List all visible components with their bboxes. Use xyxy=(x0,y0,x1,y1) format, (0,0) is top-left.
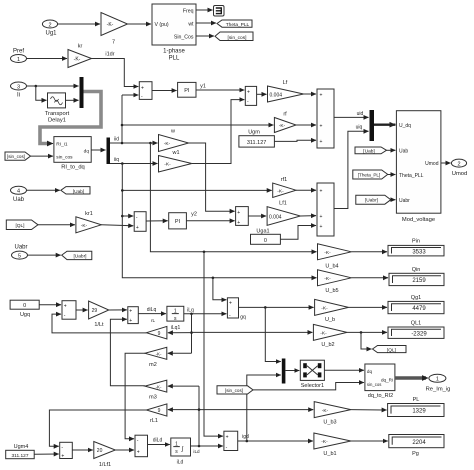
gain U_b2 xyxy=(313,324,347,347)
wire iiq long line to rf1 xyxy=(122,189,271,191)
gain Lf 0.004 xyxy=(268,80,304,102)
gain kr xyxy=(68,44,92,68)
svg-text:-K-: -K- xyxy=(321,439,328,445)
svg-text:-K-: -K- xyxy=(81,223,88,229)
svg-text:Umod: Umod xyxy=(425,161,439,167)
goto tag QL left xyxy=(373,346,407,354)
svg-text:311.127: 311.127 xyxy=(12,453,29,459)
display Pin xyxy=(388,239,444,256)
goto tag Theta_PLL xyxy=(217,20,252,28)
svg-text:dq: dq xyxy=(367,369,373,374)
svg-text:Pref: Pref xyxy=(13,49,24,55)
block Mod_voltage xyxy=(396,111,441,223)
svg-text:1-phase: 1-phase xyxy=(163,49,185,55)
svg-text:[Uab]: [Uab] xyxy=(363,149,374,155)
junction lineA down xyxy=(203,251,206,254)
svg-text:2: 2 xyxy=(48,22,51,28)
svg-text:9: 9 xyxy=(158,408,161,414)
gain U_b1 xyxy=(314,433,351,457)
wire rLq1 feedback to S6 xyxy=(52,314,146,333)
wire dq to demux1 xyxy=(91,149,105,151)
svg-text:sin_cos: sin_cos xyxy=(56,155,73,161)
mux1 xyxy=(80,77,84,108)
svg-text:+: + xyxy=(247,89,250,95)
wire U_b2 to QL1 display xyxy=(347,331,387,333)
svg-text:+: + xyxy=(61,453,64,459)
svg-text:-K-: -K- xyxy=(164,141,171,147)
svg-text:U_b: U_b xyxy=(325,317,335,323)
wire igd S9 to U_b1 xyxy=(238,434,313,442)
gain U_b4 xyxy=(318,244,352,269)
wire iLq vertical down xyxy=(191,314,193,354)
svg-text:0.004: 0.004 xyxy=(270,93,283,99)
svg-text:[QL]: [QL] xyxy=(15,223,24,229)
gain m3 left xyxy=(145,380,167,401)
wire rL1 feedback to S10 xyxy=(49,410,146,446)
svg-text:Sin_Cos: Sin_Cos xyxy=(174,34,194,40)
goto tag Uab left xyxy=(61,187,90,195)
wire Ugm to Stop xyxy=(274,140,316,141)
svg-text:iLq1: iLq1 xyxy=(171,325,181,331)
svg-text:-K-: -K- xyxy=(156,352,162,357)
wire iLq to gain m2 xyxy=(168,352,192,354)
wire kr1 to S5 xyxy=(101,225,133,226)
wire gq down to mux3 xyxy=(265,307,281,361)
display QL1 xyxy=(388,320,444,338)
svg-text:-K-: -K- xyxy=(277,188,284,194)
svg-text:Pg: Pg xyxy=(412,451,419,457)
display PL xyxy=(388,397,444,417)
svg-text:+: + xyxy=(137,449,140,455)
wire Lf to Stop xyxy=(304,93,317,95)
svg-text:[Uabr]: [Uabr] xyxy=(73,254,86,260)
svg-text:+: + xyxy=(237,210,240,216)
wire Ugq to S6 xyxy=(39,304,61,306)
wire y1 PI to sum S2 xyxy=(196,84,244,91)
wire iLd to rL1 xyxy=(168,409,199,411)
wire Uab to goto xyxy=(27,189,60,191)
svg-text:+: + xyxy=(129,309,132,315)
gain rf xyxy=(274,112,296,133)
block 1-phase PLL xyxy=(152,4,196,62)
mux2 xyxy=(370,110,375,141)
gain w1 xyxy=(159,150,192,172)
wire igd up to mux3 xyxy=(247,375,281,441)
svg-text:kr1: kr1 xyxy=(85,211,93,217)
wire lineA down to S9 xyxy=(204,252,223,436)
svg-text:sin_cos: sin_cos xyxy=(367,382,382,387)
integrator 1/s iLq1 xyxy=(167,306,184,331)
svg-text:3533: 3533 xyxy=(412,249,426,255)
svg-text:rf1: rf1 xyxy=(281,177,287,183)
svg-text:9: 9 xyxy=(158,331,161,337)
demux1 xyxy=(107,138,111,165)
wire rf to Stop xyxy=(296,124,316,126)
block dq_to_RI2 xyxy=(365,364,395,399)
wire iid demux to gain w xyxy=(110,137,158,145)
svg-text:[Uab]: [Uab] xyxy=(73,189,84,195)
svg-text:[Theta_PL]: [Theta_PL] xyxy=(358,172,380,177)
svg-text:[QL]: [QL] xyxy=(387,347,396,353)
wire Uga1 to S4 xyxy=(280,226,316,240)
gain w xyxy=(159,129,189,152)
wire to gain rLq1 xyxy=(168,332,192,334)
gain rL1 9 left xyxy=(146,404,167,424)
svg-text:Ugm4: Ugm4 xyxy=(14,444,29,450)
wire Ug1 to gain7 xyxy=(58,23,100,25)
svg-text:Theta_PLL: Theta_PLL xyxy=(399,173,424,179)
junction Ii branch xyxy=(35,85,38,88)
wire Ii to mux1 xyxy=(27,85,79,87)
wire m2 down to S11 xyxy=(125,353,145,439)
gain rLq1 9 left xyxy=(146,326,167,339)
wire U_b4 to Pin display xyxy=(351,251,387,253)
svg-text:y1: y1 xyxy=(200,84,206,90)
wire Freq to display icon xyxy=(196,9,213,11)
wire S6 to gain 29 xyxy=(76,309,88,311)
constant Ugm 311.127 xyxy=(239,130,275,147)
outport 1 Re_Im_ig xyxy=(426,374,451,392)
svg-text:-K-: -K- xyxy=(324,276,331,282)
svg-text:-K-: -K- xyxy=(321,306,328,312)
from tag Uab right xyxy=(355,147,395,155)
svg-text:+: + xyxy=(136,225,139,231)
display Pg xyxy=(389,435,444,457)
svg-text:Ugm: Ugm xyxy=(248,130,260,136)
block RI_to_dq xyxy=(54,137,91,171)
display Qin xyxy=(389,267,444,286)
svg-text:Lf: Lf xyxy=(283,80,288,86)
sum S6 xyxy=(62,301,76,320)
small display block (Freq) xyxy=(214,6,225,17)
svg-text:U_b4: U_b4 xyxy=(325,263,338,269)
wire U_b1 to Pg display xyxy=(351,440,388,442)
wire lineB down to S8 xyxy=(213,278,227,300)
svg-text:[sin_cos]: [sin_cos] xyxy=(7,154,25,159)
svg-text:Uabr: Uabr xyxy=(14,245,27,251)
wire iLd to S9 xyxy=(191,445,223,454)
wire iLq to S8 xyxy=(184,307,227,315)
wire S2 to Lf xyxy=(257,93,267,95)
svg-text:+: + xyxy=(226,435,229,441)
inport 5 Uabr xyxy=(12,245,28,260)
wire mux2 to Mod_voltage U_dq thick xyxy=(374,123,395,125)
sum S3 xyxy=(236,207,249,226)
svg-text:RI_to_dq: RI_to_dq xyxy=(61,164,85,170)
wire diLd S11 to integrator2 xyxy=(148,438,170,445)
wire Uabr to goto xyxy=(28,254,61,256)
svg-text:0: 0 xyxy=(264,238,267,244)
svg-text:Ii: Ii xyxy=(17,93,20,99)
from tag QL left xyxy=(6,220,75,230)
svg-text:dq: dq xyxy=(84,149,90,155)
svg-text:iLd: iLd xyxy=(177,460,184,466)
svg-text:Qg1: Qg1 xyxy=(411,295,421,301)
svg-text:+: + xyxy=(64,303,67,309)
svg-text:∫: ∫ xyxy=(181,445,184,452)
junction lineB down xyxy=(212,277,215,280)
svg-text:PI: PI xyxy=(175,219,181,225)
svg-text:-2329: -2329 xyxy=(411,331,427,337)
svg-text:i1dr: i1dr xyxy=(105,52,114,58)
wire rf1 to S4 xyxy=(296,189,316,191)
wire ukq S4 up to mux2 xyxy=(334,124,369,208)
from tag Theta_PLL right xyxy=(353,170,396,179)
svg-text:uid: uid xyxy=(357,111,364,117)
gain U_b3 xyxy=(314,402,351,426)
svg-text:m2: m2 xyxy=(149,362,157,368)
from tag sin_cos bottom xyxy=(217,383,364,395)
wire U_b2 branch to goto QL xyxy=(361,332,372,349)
gain rf1 xyxy=(273,177,296,198)
sum S8 gq xyxy=(227,298,246,321)
svg-text:4479: 4479 xyxy=(412,306,426,312)
svg-text:Qin: Qin xyxy=(412,267,421,273)
svg-text:5: 5 xyxy=(18,253,21,259)
svg-text:Freq: Freq xyxy=(183,8,194,14)
svg-text:Lf1: Lf1 xyxy=(279,201,287,207)
inport 3 Ii xyxy=(11,82,27,99)
gain m2 left xyxy=(145,347,167,368)
wire w gain down to sum S3 xyxy=(189,143,235,211)
svg-text:gq: gq xyxy=(240,314,246,320)
svg-text:uiq: uiq xyxy=(356,124,363,130)
svg-text:[sin_cos]: [sin_cos] xyxy=(228,35,247,41)
sum S1 xyxy=(139,82,152,100)
svg-text:Selector1: Selector1 xyxy=(301,383,324,389)
svg-text:Ugq: Ugq xyxy=(20,312,30,318)
gain 29 1/Lt xyxy=(89,301,109,328)
sum Stop ukd xyxy=(317,89,334,148)
constant Uga1 xyxy=(251,228,281,244)
svg-text:iid: iid xyxy=(114,137,119,143)
wire S5 to PI2 xyxy=(146,220,168,222)
from tag Uabr right xyxy=(356,195,396,204)
wire Pref to kr xyxy=(27,58,68,60)
svg-text:+: + xyxy=(320,214,323,220)
svg-text:dq_Ri: dq_Ri xyxy=(381,377,393,382)
svg-text:QL1: QL1 xyxy=(411,320,421,326)
svg-text:Pin: Pin xyxy=(412,239,420,245)
svg-text:-K-: -K- xyxy=(279,123,286,129)
wire Ii down to Transport Delay xyxy=(36,86,47,100)
svg-text:2159: 2159 xyxy=(412,278,426,284)
sum S9 igd xyxy=(224,431,238,450)
svg-text:Uab: Uab xyxy=(399,149,408,155)
svg-text:2: 2 xyxy=(457,161,460,167)
wire Sin_Cos to goto sin_cos xyxy=(196,35,214,37)
svg-text:-K-: -K- xyxy=(322,408,329,414)
block Transport Delay1 xyxy=(45,93,70,123)
svg-text:U_b5: U_b5 xyxy=(325,288,338,294)
svg-text:diLd: diLd xyxy=(153,438,163,444)
svg-text:iLq: iLq xyxy=(187,307,194,313)
wire iiq vertical down to line B xyxy=(122,164,316,278)
svg-text:311.127: 311.127 xyxy=(247,140,266,146)
svg-text:+: + xyxy=(320,189,323,195)
svg-text:igd: igd xyxy=(242,434,249,440)
svg-text:+: + xyxy=(320,124,323,130)
svg-text:+: + xyxy=(320,93,323,99)
outport 2 Umod xyxy=(451,159,467,177)
wire gq S8 to U_b xyxy=(239,306,314,308)
svg-text:rL: rL xyxy=(151,318,156,323)
svg-text:1/Lt: 1/Lt xyxy=(94,322,104,328)
svg-text:iiq: iiq xyxy=(114,157,119,163)
svg-text:diLq: diLq xyxy=(147,307,157,313)
wire iid feedback into S1 xyxy=(122,94,138,96)
svg-text:+: + xyxy=(320,224,323,230)
svg-text:[sin_cos]: [sin_cos] xyxy=(225,388,243,393)
wire iLd to gain U_b3 xyxy=(199,409,313,411)
thick gray wire mux1 to RI_to_dq xyxy=(40,92,101,144)
wire 20 to S11 xyxy=(115,449,134,451)
svg-text:Uga1: Uga1 xyxy=(256,228,269,234)
sum S10 xyxy=(60,442,73,459)
svg-text:w: w xyxy=(170,129,175,135)
wire ukd Stop to mux2 xyxy=(334,111,369,118)
wire diLq S7 to integrator1 xyxy=(138,307,166,323)
wire m3 feedback to S7 xyxy=(110,319,144,386)
svg-text:+: + xyxy=(229,300,232,306)
svg-text:+: + xyxy=(237,220,240,226)
gain 20 1/Lf1 xyxy=(94,442,116,468)
svg-text:-K-: -K- xyxy=(320,331,327,337)
wire iiq to sum S5 xyxy=(122,215,133,217)
svg-text:+: + xyxy=(320,139,323,145)
svg-text:0.004: 0.004 xyxy=(269,214,282,220)
sum S11 xyxy=(135,435,148,457)
svg-text:PLL: PLL xyxy=(169,56,180,62)
gain U_b xyxy=(315,299,349,322)
svg-text:y2: y2 xyxy=(191,212,197,218)
wire Umod to outport xyxy=(441,162,451,164)
svg-text:Uabr: Uabr xyxy=(399,198,410,204)
svg-text:0: 0 xyxy=(23,303,26,309)
svg-text:Re_Im_ig: Re_Im_ig xyxy=(426,386,451,392)
svg-text:PI: PI xyxy=(184,88,190,94)
svg-text:iLd: iLd xyxy=(193,449,200,454)
wire iiq demux to gain w1 xyxy=(110,157,158,165)
gain 7 (-K-) xyxy=(101,13,128,46)
sum S7 xyxy=(128,307,139,324)
gain Lf1 0.004 xyxy=(267,201,300,226)
svg-text:1/Lf1: 1/Lf1 xyxy=(99,462,111,468)
thick wire dq_Ri to outport xyxy=(395,376,426,379)
svg-text:7: 7 xyxy=(112,40,115,46)
wire Ugm4 to S10 xyxy=(34,453,59,455)
constant Ugq 0 xyxy=(10,300,39,318)
svg-text:U_b3: U_b3 xyxy=(323,419,336,425)
svg-text:V (pu): V (pu) xyxy=(155,22,169,28)
wire iLd to m3 xyxy=(168,385,199,387)
wire iLd vertical up xyxy=(198,386,200,446)
sum S4 ukq xyxy=(317,183,334,236)
svg-text:-K-: -K- xyxy=(107,22,114,28)
svg-text:Theta_PLL: Theta_PLL xyxy=(226,22,250,28)
svg-text:Transport: Transport xyxy=(45,111,70,117)
svg-text:m3: m3 xyxy=(149,395,157,401)
inport 1 Pref xyxy=(11,49,27,63)
svg-text:-K-: -K- xyxy=(74,57,81,63)
svg-text:Ug1: Ug1 xyxy=(45,31,57,37)
wire 29 to S7 xyxy=(109,309,127,311)
gain U_b5 xyxy=(318,270,352,294)
from tag sin_cos left xyxy=(5,152,53,160)
sum S5 xyxy=(134,212,146,232)
svg-text:Mod_voltage: Mod_voltage xyxy=(402,217,435,223)
svg-text:wt: wt xyxy=(188,21,194,27)
svg-text:Uab: Uab xyxy=(13,197,25,203)
wire gain7 to PLL xyxy=(128,23,152,25)
wire iid vertical down to line A xyxy=(150,143,316,252)
svg-text:U_b1: U_b1 xyxy=(323,451,336,457)
svg-text:U_b2: U_b2 xyxy=(321,342,334,348)
mux3 xyxy=(282,359,286,384)
svg-text:+: + xyxy=(129,318,132,324)
svg-text:rL1: rL1 xyxy=(150,418,158,424)
svg-text:2204: 2204 xyxy=(412,440,426,446)
svg-text:-K-: -K- xyxy=(324,250,331,256)
wire S1 to PI xyxy=(152,90,177,92)
wire y2 PI2 to S3 xyxy=(186,212,234,221)
wire S3 to Lf1 xyxy=(248,215,266,217)
block PI2 xyxy=(169,213,187,229)
svg-text:Umod: Umod xyxy=(452,171,467,177)
svg-text:+: + xyxy=(141,85,144,91)
junction rf line xyxy=(121,124,124,127)
svg-text:1: 1 xyxy=(436,377,439,383)
goto tag Uabr left xyxy=(62,251,92,259)
wire mux3 to Selector1 xyxy=(285,370,299,372)
wire U_b to Qg1 display xyxy=(349,306,388,308)
wire i1dr kr to sum S1 xyxy=(92,52,139,87)
sum S2 xyxy=(245,86,256,105)
svg-text:-K-: -K- xyxy=(164,162,171,168)
wire S10 to gain 20 xyxy=(72,449,93,451)
wire iLq to gain U_b2 xyxy=(192,331,313,333)
block Selector1 xyxy=(300,360,324,389)
svg-text:PL: PL xyxy=(413,397,420,403)
svg-text:[Uabr]: [Uabr] xyxy=(365,198,378,204)
wire Selector1 to dq_to_RI2 xyxy=(324,369,364,371)
svg-text:4: 4 xyxy=(17,189,20,195)
svg-text:RI_i1: RI_i1 xyxy=(56,142,68,148)
svg-text:1: 1 xyxy=(17,57,20,63)
svg-text:20: 20 xyxy=(97,448,103,454)
svg-text:29: 29 xyxy=(92,308,98,314)
block PI xyxy=(178,82,196,97)
svg-text:dq_to_RI2: dq_to_RI2 xyxy=(368,393,393,399)
wire wt to goto Theta_PLL xyxy=(196,22,216,24)
svg-text:Delay1: Delay1 xyxy=(48,117,66,123)
wire iid long line to rf xyxy=(122,124,273,126)
gain kr1 xyxy=(76,211,101,233)
svg-text:rf: rf xyxy=(283,112,287,118)
svg-text:1329: 1329 xyxy=(412,409,426,415)
svg-text:kr: kr xyxy=(78,44,83,50)
inport 2 Ug1 xyxy=(42,20,57,37)
wire U_b3 to PL display xyxy=(351,409,387,411)
inport 4 Uab xyxy=(11,186,27,203)
wire w1 feedback to S2 xyxy=(192,100,245,164)
svg-text:-K-: -K- xyxy=(156,384,162,389)
integrator 1/s iLd xyxy=(171,438,191,466)
goto tag sin_cos top xyxy=(215,32,253,41)
display Qg1 xyxy=(388,295,444,314)
svg-text:3: 3 xyxy=(17,84,20,90)
constant Ugm4 311.127 xyxy=(6,444,35,459)
